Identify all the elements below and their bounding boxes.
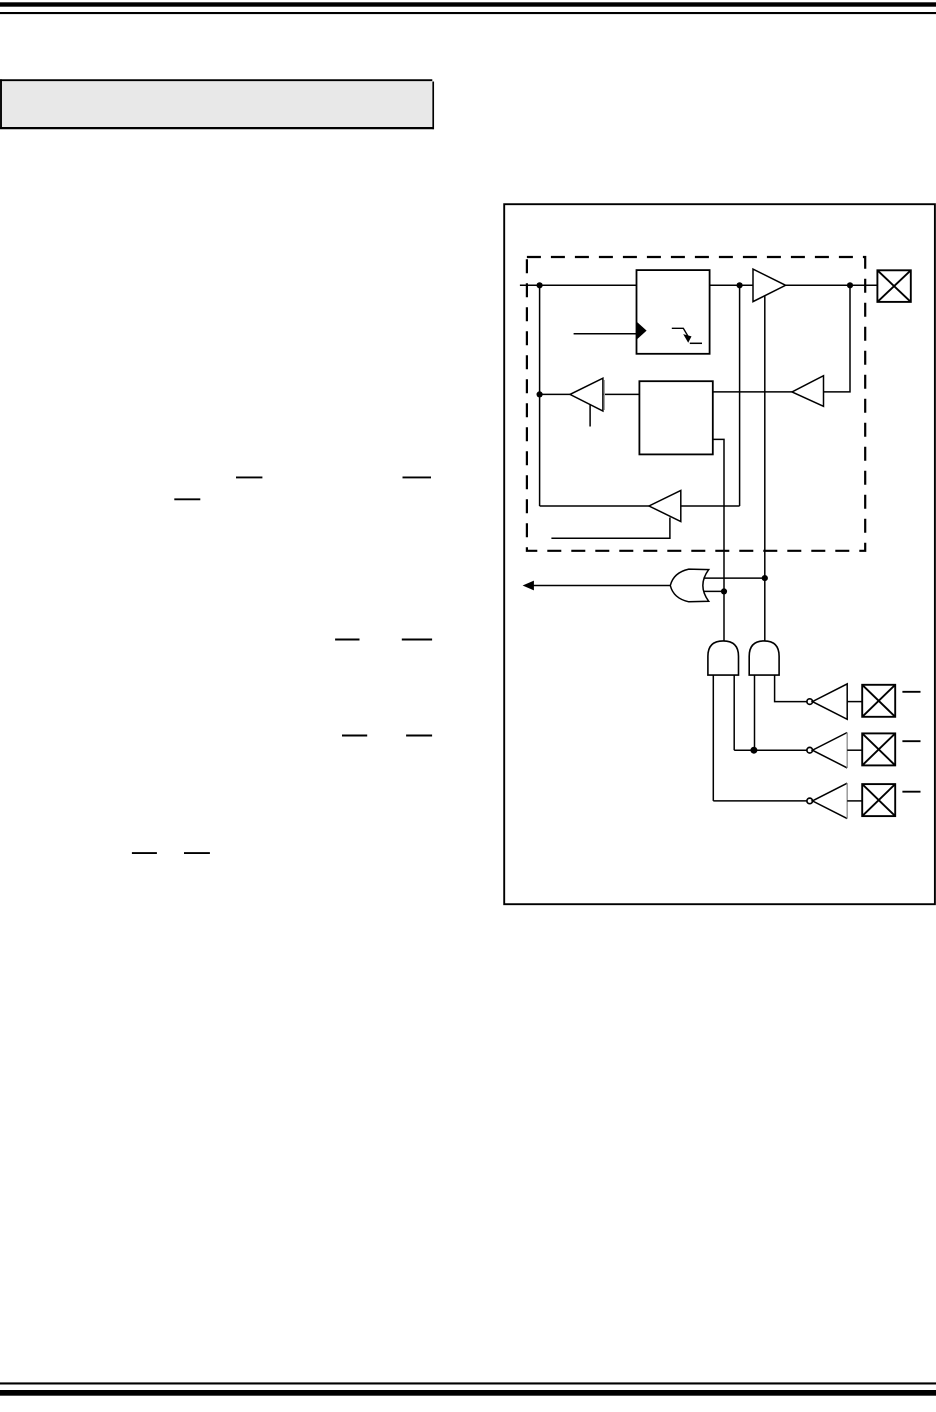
tri-state buffer U5 bbox=[570, 378, 603, 411]
inverter U8 bubble bbox=[807, 747, 813, 753]
pad P2 bbox=[862, 685, 895, 717]
wire: G2 input 1 down to inverter U9 net bbox=[712, 675, 714, 801]
enable stub of U6 bbox=[551, 518, 670, 539]
TRIS latch U2 bbox=[639, 381, 712, 454]
wire: pad branch down to input buffer U4 bbox=[824, 285, 851, 392]
inverter U7 bubble bbox=[807, 699, 813, 705]
wire: read buffer input line bbox=[681, 505, 740, 507]
wire: OR gate top input bbox=[704, 577, 765, 579]
figure frame bbox=[504, 204, 935, 904]
pad P4 bbox=[862, 784, 895, 816]
wire: clock input line bbox=[574, 333, 637, 335]
data latch U1 bbox=[637, 270, 710, 354]
inverter U8 bbox=[812, 733, 847, 768]
read buffer U6 bbox=[649, 491, 681, 522]
wire: buffer output to I/O pad bbox=[786, 284, 878, 286]
wire: TRIS latch bottom output to enable vertical bbox=[713, 439, 724, 641]
node: junction dot on left vertical at tri-state buffer input bbox=[537, 391, 543, 397]
wire: U7 input from pad P2 bbox=[847, 701, 862, 703]
wire: OR gate bottom input bbox=[704, 590, 724, 592]
wire: output buffer enable vertical down to right AND gate bbox=[764, 296, 766, 641]
dashed cell boundary box bbox=[527, 257, 865, 551]
OR gate G1 bbox=[670, 569, 708, 602]
falling-edge waveform symbol inside latch bbox=[672, 328, 702, 343]
overbar over hidden signal name (text column, line 5a) bbox=[132, 852, 157, 854]
wire: U5 output to left vertical bus bbox=[540, 393, 570, 395]
node: dot at OR top input on enable vertical bbox=[762, 575, 768, 581]
arrowhead of falling-edge symbol bbox=[683, 334, 691, 343]
gray base edge of U5 bbox=[603, 380, 605, 410]
overbar over hidden signal name (text column, line 4a) bbox=[342, 735, 367, 737]
page footer thick rule bbox=[0, 1390, 936, 1396]
arrowhead on OR output bbox=[523, 581, 534, 591]
page header thick rule bbox=[0, 2, 936, 6]
node: junction dot on U8 net bbox=[750, 747, 757, 754]
output driver buffer U3 bbox=[753, 269, 786, 302]
page footer thin rule bbox=[0, 1382, 936, 1384]
wire: TRIS latch left output to tri-state buffer U5 bbox=[603, 393, 640, 395]
node: dot at OR bottom input on TRIS vertical bbox=[721, 588, 727, 594]
AND gate G3 (right) bbox=[749, 641, 779, 675]
wire: inverter U8 output net with junction bbox=[734, 749, 807, 751]
overbar over hidden signal name (text column, line 3b) bbox=[402, 639, 432, 641]
wire: read buffer output to left vertical bus bbox=[540, 505, 649, 507]
inverter U9 bubble bbox=[807, 798, 813, 804]
node: junction dot at pad branch bbox=[847, 282, 853, 288]
inverter U9 bbox=[812, 783, 847, 818]
overbar over hidden signal name (text column, line 4b) bbox=[406, 735, 432, 737]
wire: G3 input 1 down to inverter U8 net bbox=[754, 675, 756, 750]
inverter U7 bbox=[812, 684, 847, 719]
overbar over hidden signal name (text column, line 3a) bbox=[335, 639, 359, 641]
overbar over hidden pad label 3 bbox=[902, 791, 920, 793]
input buffer U4 bbox=[792, 376, 824, 407]
wire: left vertical bus from data line down to read buffer output bbox=[539, 285, 541, 506]
wire: data input stub and top data line to latch bbox=[520, 284, 637, 286]
wire: input buffer output to TRIS latch bbox=[713, 391, 792, 393]
clock edge triangle on latch bbox=[637, 322, 647, 340]
overbar over hidden signal name (text column, line 1a) bbox=[236, 476, 262, 478]
I/O pad P1 bbox=[877, 270, 910, 302]
AND gate G2 (left) bbox=[708, 641, 739, 675]
wire: G2 input 2 down to inverter U8 net bbox=[733, 675, 735, 750]
wire: G3 input 2 to inverter U7 bbox=[775, 675, 807, 702]
overbar over hidden pad label 2 bbox=[902, 740, 920, 742]
pad P3 bbox=[862, 733, 895, 765]
wire: vertical from output-buffer input dot down to read buffer input bbox=[739, 285, 741, 506]
overbar over hidden signal name (text column, line 5b) bbox=[184, 852, 210, 854]
node: junction dot at output-buffer input bbox=[737, 282, 743, 288]
wire: OR gate output line bbox=[531, 585, 670, 587]
overbar over hidden signal name (text column, line 2) bbox=[174, 498, 200, 500]
wire: inverter U9 output net bbox=[713, 800, 807, 802]
page header thin rule bbox=[0, 12, 936, 14]
overbar over hidden signal name (text column, line 1b) bbox=[403, 476, 432, 478]
wire: latch output to output buffer bbox=[710, 284, 753, 286]
wire: U8 input from pad P3 bbox=[847, 749, 862, 751]
section header shaded box bbox=[0, 79, 434, 129]
node: junction dot on data line (left) bbox=[537, 282, 543, 288]
enable stub of U5 bbox=[589, 404, 591, 426]
overbar over hidden pad label 1 bbox=[902, 691, 920, 693]
wire: U9 input from pad P4 bbox=[847, 800, 862, 802]
